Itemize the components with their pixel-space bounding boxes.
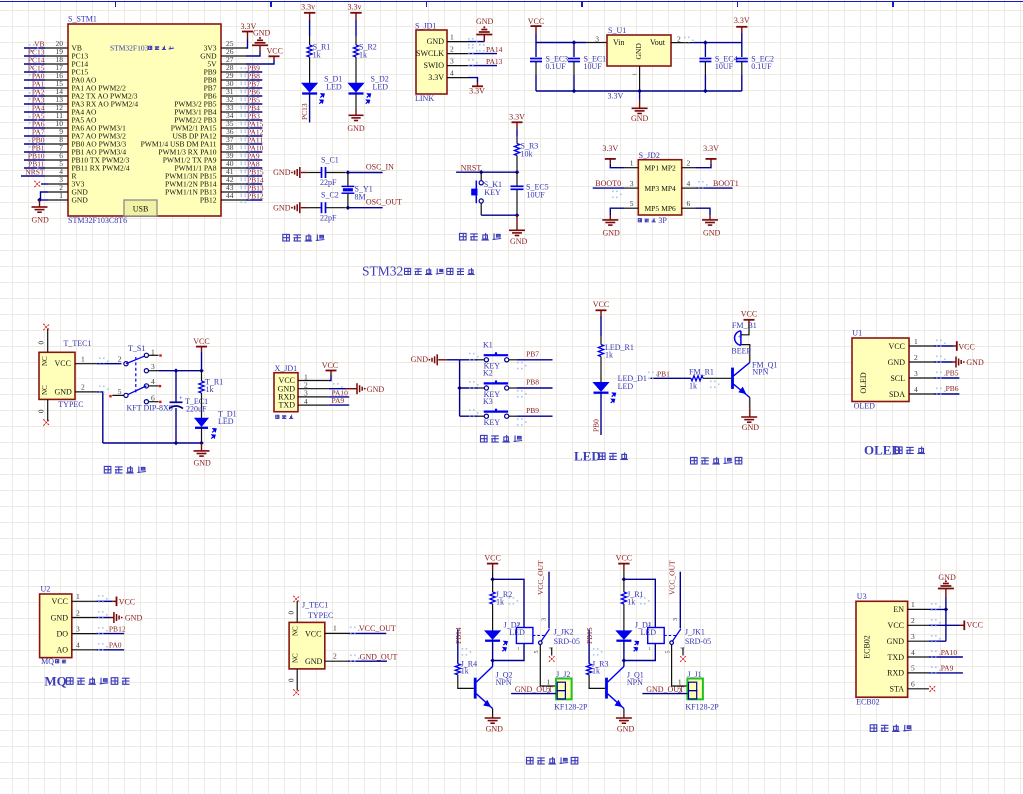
svg-text:4: 4 [914, 385, 918, 394]
svg-text:GND: GND [887, 637, 905, 646]
svg-text:STM32F103C8T6: STM32F103C8T6 [68, 216, 127, 225]
svg-text:RXD: RXD [887, 669, 904, 678]
svg-text:5: 5 [534, 651, 540, 654]
svg-text:GND: GND [347, 124, 365, 133]
svg-text:1: 1 [630, 159, 634, 168]
svg-text:OSC_IN: OSC_IN [366, 163, 394, 172]
svg-text:1: 1 [76, 592, 80, 601]
svg-text:2: 2 [76, 608, 80, 617]
svg-text:OLED: OLED [854, 401, 876, 410]
svg-text:GND: GND [72, 196, 89, 205]
svg-text:NPN: NPN [752, 368, 768, 377]
svg-text:KF128-2P: KF128-2P [685, 703, 719, 712]
svg-text:AO: AO [56, 646, 68, 655]
svg-text:1k: 1k [461, 666, 469, 675]
svg-text:1: 1 [450, 33, 454, 42]
svg-text:MQ: MQ [41, 657, 54, 666]
svg-text:VCC: VCC [888, 621, 904, 630]
svg-text:VCC: VCC [119, 597, 135, 606]
svg-text:0: 0 [288, 611, 296, 615]
svg-text:NPN: NPN [496, 678, 512, 687]
svg-text:KEY: KEY [484, 418, 501, 427]
svg-text:K2: K2 [483, 369, 493, 378]
svg-text:U3: U3 [857, 592, 867, 601]
svg-text:1k: 1k [359, 50, 367, 59]
svg-text:6: 6 [151, 393, 155, 402]
svg-text:2: 2 [81, 383, 85, 392]
svg-text:PB0: PB0 [592, 419, 601, 432]
svg-text:SWCLK: SWCLK [416, 49, 444, 58]
svg-text:MP4: MP4 [661, 184, 676, 193]
svg-text:J_J2: J_J2 [556, 670, 570, 679]
svg-text:NRST: NRST [25, 168, 45, 177]
svg-text:3: 3 [450, 57, 454, 66]
svg-text:0: 0 [38, 341, 46, 345]
svg-text:VCC: VCC [322, 361, 338, 370]
svg-text:TYPEC: TYPEC [58, 400, 83, 409]
svg-text:1: 1 [914, 337, 918, 346]
svg-text:LED: LED [218, 417, 234, 426]
svg-text:NC: NC [41, 385, 49, 395]
svg-text:GND_OUT: GND_OUT [515, 685, 553, 694]
svg-text:VCC: VCC [52, 597, 68, 606]
svg-text:3: 3 [76, 624, 80, 633]
svg-text:3.3V: 3.3V [469, 87, 485, 96]
svg-text:STM32: STM32 [362, 264, 403, 279]
svg-text:3: 3 [911, 632, 915, 641]
svg-text:PB9: PB9 [526, 406, 539, 415]
svg-text:8M: 8M [355, 193, 366, 202]
svg-text:VCC: VCC [528, 17, 544, 26]
svg-text:1k: 1k [592, 666, 600, 675]
svg-text:10UF: 10UF [715, 62, 734, 71]
svg-text:1: 1 [648, 646, 650, 651]
svg-text:TXD: TXD [888, 653, 905, 662]
svg-text:220uF: 220uF [186, 405, 207, 414]
svg-text:3.3V: 3.3V [602, 144, 618, 153]
svg-text:VCC: VCC [741, 310, 757, 319]
svg-text:2: 2 [333, 652, 337, 661]
svg-text:4: 4 [151, 377, 155, 386]
svg-text:4: 4 [76, 641, 80, 650]
svg-text:+: + [179, 395, 183, 402]
svg-text:GND: GND [273, 203, 291, 212]
svg-text:0.1UF: 0.1UF [546, 62, 567, 71]
svg-text:BOOT0: BOOT0 [595, 179, 621, 188]
svg-text:3.3v: 3.3v [348, 3, 362, 12]
svg-text:GND: GND [125, 614, 143, 623]
svg-text:GND: GND [51, 613, 69, 622]
svg-text:K1: K1 [483, 341, 493, 350]
svg-text:GND: GND [367, 385, 385, 394]
svg-text:MQ: MQ [44, 673, 66, 688]
svg-text:2: 2 [914, 353, 918, 362]
svg-text:0: 0 [288, 678, 296, 682]
svg-text:2: 2 [118, 355, 122, 364]
svg-text:U1: U1 [852, 329, 862, 338]
svg-text:VCC: VCC [305, 630, 321, 639]
svg-text:10UF: 10UF [584, 62, 603, 71]
svg-text:SDA: SDA [889, 390, 905, 399]
svg-text:T_TEC1: T_TEC1 [64, 339, 92, 348]
svg-text:1k: 1k [605, 351, 613, 360]
svg-text:GND: GND [476, 17, 494, 26]
svg-text:PA0: PA0 [109, 641, 122, 650]
svg-text:3: 3 [673, 618, 679, 621]
svg-text:VCC: VCC [889, 342, 905, 351]
svg-text:S_STM1: S_STM1 [68, 15, 97, 24]
svg-text:1: 1 [59, 191, 63, 200]
svg-text:VCC: VCC [267, 47, 283, 56]
svg-text:3: 3 [630, 179, 634, 188]
svg-text:3.3V: 3.3V [428, 73, 444, 82]
svg-text:LED: LED [373, 83, 389, 92]
svg-text:5: 5 [118, 387, 122, 396]
svg-text:NC: NC [292, 653, 300, 663]
svg-text:1k: 1k [689, 382, 697, 391]
svg-text:VCC: VCC [55, 359, 71, 368]
svg-text:4: 4 [911, 648, 915, 657]
svg-text:1k: 1k [206, 385, 214, 394]
svg-text:22pF: 22pF [320, 213, 337, 222]
svg-text:LED: LED [326, 83, 342, 92]
svg-text:4: 4 [450, 69, 454, 78]
svg-text:1: 1 [81, 355, 85, 364]
svg-text:KF128-2P: KF128-2P [554, 703, 588, 712]
svg-text:J_J1: J_J1 [687, 670, 701, 679]
svg-text:2: 2 [687, 159, 691, 168]
svg-text:GND: GND [32, 216, 50, 225]
svg-text:BEEP: BEEP [731, 347, 751, 356]
svg-text:PB15: PB15 [585, 627, 594, 644]
svg-text:GND: GND [55, 388, 73, 397]
svg-text:3.3v: 3.3v [301, 3, 315, 12]
svg-text:0.1UF: 0.1UF [751, 62, 772, 71]
svg-text:3.3V: 3.3V [734, 16, 750, 25]
svg-text:J_TEC1: J_TEC1 [302, 601, 328, 610]
svg-text:X_JD1: X_JD1 [275, 364, 298, 373]
svg-text:S_C2: S_C2 [321, 191, 339, 200]
svg-text:GND: GND [273, 168, 291, 177]
svg-text:PA9: PA9 [941, 664, 954, 673]
svg-text:GND: GND [253, 29, 271, 38]
svg-text:22pF: 22pF [320, 178, 337, 187]
svg-text:EN: EN [893, 605, 904, 614]
svg-text:3P: 3P [658, 216, 667, 225]
svg-text:1k: 1k [313, 50, 321, 59]
svg-text:VCC: VCC [616, 554, 632, 563]
svg-text:10UF: 10UF [527, 191, 546, 200]
svg-text:VCC: VCC [958, 342, 974, 351]
svg-text:KEY: KEY [484, 188, 501, 197]
svg-text:6: 6 [911, 680, 915, 689]
svg-text:3.3V: 3.3V [509, 113, 525, 122]
svg-text:J_JK2: J_JK2 [554, 628, 574, 637]
svg-text:1: 1 [517, 646, 519, 651]
svg-text:PB1: PB1 [657, 369, 670, 378]
svg-text:GND: GND [966, 358, 984, 367]
svg-text:1: 1 [333, 624, 337, 633]
svg-text:GND: GND [888, 358, 906, 367]
svg-text:VCC_OUT: VCC_OUT [536, 560, 545, 595]
svg-text:VCC: VCC [484, 554, 500, 563]
svg-text:FM_B1: FM_B1 [732, 321, 757, 330]
svg-text:BOOT1: BOOT1 [713, 179, 739, 188]
svg-text:5: 5 [911, 664, 915, 673]
svg-text:NC: NC [292, 626, 300, 636]
svg-text:3.3V: 3.3V [608, 92, 624, 101]
svg-text:3: 3 [151, 362, 155, 371]
svg-text:SCL: SCL [890, 374, 905, 383]
svg-text:VCC: VCC [967, 621, 983, 630]
svg-text:1: 1 [911, 600, 915, 609]
svg-text:PB12: PB12 [109, 624, 126, 633]
svg-text:GND: GND [703, 229, 721, 238]
svg-text:S_U1: S_U1 [608, 26, 626, 35]
svg-text:LINK: LINK [415, 94, 434, 103]
svg-text:PB5: PB5 [946, 368, 959, 377]
svg-text:MP1: MP1 [645, 164, 660, 173]
svg-text:3.3V: 3.3V [703, 144, 719, 153]
svg-text:MP3: MP3 [645, 184, 660, 193]
svg-text:STM32F103: STM32F103 [110, 44, 149, 53]
svg-text:1k: 1k [627, 597, 635, 606]
svg-text:GND: GND [427, 37, 445, 46]
svg-text:VCC: VCC [193, 337, 209, 346]
svg-text:PB6: PB6 [946, 384, 959, 393]
svg-text:U2: U2 [41, 585, 51, 594]
svg-text:SRD-05: SRD-05 [554, 637, 580, 646]
svg-text:GND: GND [617, 725, 635, 734]
svg-text:0: 0 [38, 409, 46, 413]
svg-text:ECB02: ECB02 [856, 698, 880, 707]
svg-text:T_S1: T_S1 [128, 344, 145, 353]
svg-text:NPN: NPN [627, 678, 643, 687]
svg-text:GND: GND [631, 114, 649, 123]
svg-text:2: 2 [517, 622, 519, 627]
svg-text:MP6: MP6 [661, 204, 676, 213]
svg-text:DO: DO [56, 629, 68, 638]
svg-text:SRD-05: SRD-05 [685, 637, 711, 646]
svg-text:KFT DIP-8X8: KFT DIP-8X8 [127, 404, 173, 413]
svg-text:GND: GND [603, 229, 621, 238]
svg-text:PB12: PB12 [200, 196, 217, 205]
svg-text:PA10: PA10 [941, 648, 958, 657]
svg-text:K3: K3 [483, 397, 493, 406]
svg-text:VCC_OUT: VCC_OUT [667, 560, 676, 595]
svg-text:MP5: MP5 [645, 204, 660, 213]
svg-text:44: 44 [226, 191, 234, 200]
svg-text:5: 5 [665, 651, 671, 654]
svg-text:PC13: PC13 [300, 103, 309, 120]
svg-text:MP2: MP2 [661, 164, 676, 173]
svg-text:GND: GND [938, 573, 956, 582]
svg-text:J_JK1: J_JK1 [685, 628, 705, 637]
svg-text:10k: 10k [521, 149, 533, 158]
svg-text:PB7: PB7 [526, 350, 539, 359]
svg-text:S_JD1: S_JD1 [415, 21, 436, 30]
svg-text:Vin: Vin [613, 38, 625, 47]
svg-text:NRST: NRST [461, 163, 482, 172]
svg-text:STA: STA [890, 685, 905, 694]
svg-text:PA13: PA13 [486, 57, 503, 66]
svg-text:6: 6 [687, 199, 691, 208]
svg-text:GND_OUT: GND_OUT [360, 652, 398, 661]
svg-text:VCC_OUT: VCC_OUT [359, 624, 396, 633]
svg-text:FM_R1: FM_R1 [689, 367, 714, 376]
svg-text:GND: GND [411, 355, 429, 364]
svg-text:2: 2 [450, 45, 454, 54]
svg-text:OLED: OLED [859, 372, 868, 394]
svg-text:PA14: PA14 [486, 45, 503, 54]
svg-text:3: 3 [914, 369, 918, 378]
svg-text:3: 3 [542, 618, 548, 621]
svg-text:GND: GND [742, 423, 760, 432]
svg-text:USB: USB [133, 205, 149, 214]
svg-text:4: 4 [687, 179, 691, 188]
svg-text:S_JD2: S_JD2 [639, 151, 660, 160]
svg-text:TXD: TXD [279, 401, 296, 410]
svg-text:PB8: PB8 [526, 378, 539, 387]
svg-text:VCC: VCC [593, 300, 609, 309]
svg-text:PB11 RX PWM2/4: PB11 RX PWM2/4 [72, 164, 130, 173]
svg-text:GND: GND [634, 43, 643, 60]
svg-text:ECB02: ECB02 [863, 635, 872, 659]
svg-text:PB14: PB14 [454, 627, 463, 644]
svg-text:SWIO: SWIO [424, 61, 445, 70]
svg-text:GND: GND [486, 725, 504, 734]
svg-text:Vout: Vout [650, 38, 666, 47]
svg-text:2: 2 [648, 622, 650, 627]
svg-text:2: 2 [911, 616, 915, 625]
svg-text:2: 2 [677, 34, 681, 43]
svg-text:GND: GND [510, 237, 528, 246]
svg-text:3: 3 [595, 34, 599, 43]
svg-text:5: 5 [630, 199, 634, 208]
svg-text:TYPEC: TYPEC [308, 611, 333, 620]
svg-text:OSC_OUT: OSC_OUT [366, 198, 402, 207]
svg-text:LED: LED [574, 449, 601, 464]
svg-text:1k: 1k [496, 597, 504, 606]
svg-text:NC: NC [41, 356, 49, 366]
svg-text:GND_OUT: GND_OUT [646, 685, 684, 694]
svg-text:GND: GND [305, 657, 323, 666]
svg-text:LED: LED [618, 382, 634, 391]
svg-text:GND: GND [194, 459, 212, 468]
svg-text:S_C1: S_C1 [321, 156, 339, 165]
